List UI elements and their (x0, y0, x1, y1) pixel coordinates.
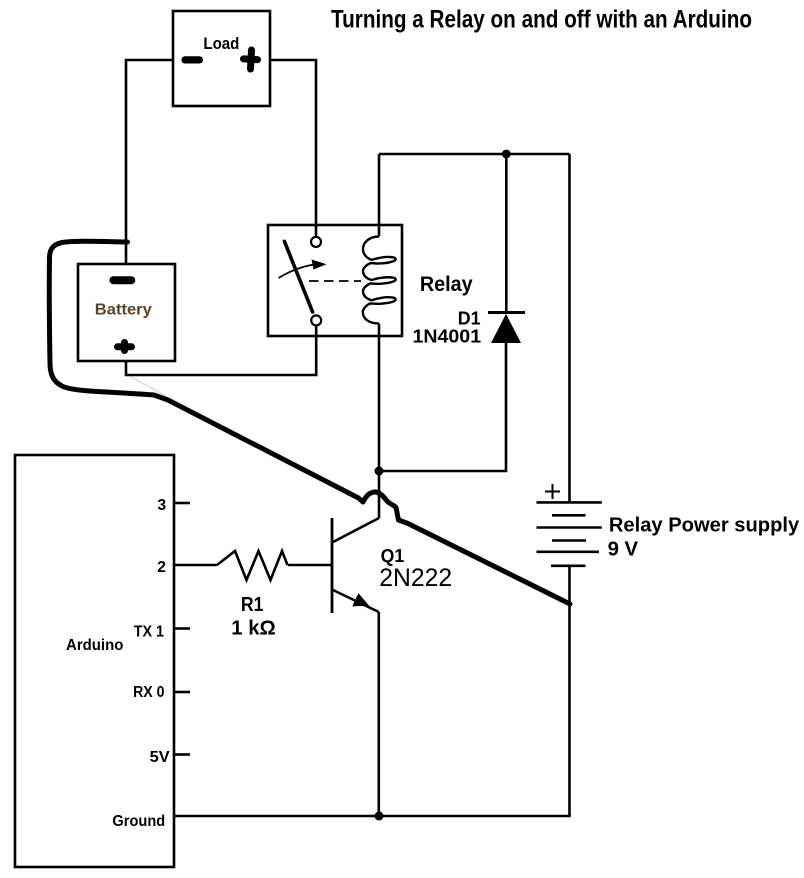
pin Ground label (112, 813, 165, 830)
svg-text:Load: Load (203, 34, 239, 53)
load minus sign (185, 56, 200, 63)
svg-text:Relay Power supply: Relay Power supply (609, 514, 800, 537)
transistor label Q1 (381, 546, 405, 566)
resistor value 1 kOhm (231, 618, 275, 640)
thick hand-drawn wire battery minus loop to relay power supply minus (49, 241, 570, 604)
title (331, 6, 752, 34)
svg-text:TX 1: TX 1 (134, 624, 165, 641)
diode label D1 (458, 308, 481, 329)
battery label (95, 302, 152, 319)
ground rail wire (174, 815, 571, 818)
transistor value 2N222 (379, 564, 452, 592)
battery box (78, 264, 175, 361)
wire emitter down to ground rail (377, 612, 380, 816)
wire load right to relay switch top (270, 60, 316, 236)
svg-text:1N4001: 1N4001 (413, 326, 482, 347)
wire battery plus to relay switch bottom (126, 326, 316, 375)
transistor Q1 (332, 518, 379, 613)
svg-text:Turning a Relay on and off wit: Turning a Relay on and off with an Ardui… (331, 6, 752, 34)
wire power supply minus to ground rail (568, 566, 571, 816)
pin RX 0 stub (174, 691, 190, 694)
svg-text:Battery: Battery (95, 302, 152, 319)
battery minus sign (113, 276, 131, 284)
wire diode cathode (505, 154, 508, 311)
svg-text:5V: 5V (150, 749, 171, 766)
pin 5V stub (174, 753, 190, 756)
arduino label (66, 637, 124, 654)
node collector junction (375, 467, 384, 476)
relay switch actuation arrow (279, 260, 327, 279)
relay box (268, 225, 402, 336)
svg-text:2N222: 2N222 (379, 564, 452, 592)
svg-text:R1: R1 (241, 594, 264, 616)
wire pin 2 to resistor (174, 564, 217, 567)
wire resistor to base (288, 564, 332, 567)
svg-text:9 V: 9 V (608, 538, 639, 561)
diode D1 (488, 313, 525, 344)
pin RX 0 label (133, 684, 164, 701)
pin TX 1 label (134, 624, 165, 641)
wire relay coil top to top rail (378, 154, 381, 237)
wire top rail to power supply plus (568, 154, 571, 502)
arduino box (15, 455, 174, 867)
resistor label R1 (241, 594, 264, 616)
pin 5V label (150, 749, 171, 766)
load label (203, 34, 239, 53)
pin 3 label (158, 497, 167, 514)
relay switch blade (284, 241, 312, 312)
resistor R1 (217, 551, 288, 580)
relay switch top terminal (311, 237, 321, 247)
wire diode anode down (379, 343, 506, 471)
wire load left to battery (126, 60, 173, 264)
relay label (420, 273, 473, 296)
svg-text:1 kΩ: 1 kΩ (231, 618, 275, 640)
svg-text:RX 0: RX 0 (133, 684, 164, 701)
battery B1 relay power supply (537, 502, 602, 565)
relay dashed coupling line (309, 280, 361, 282)
battery plus sign (118, 343, 132, 351)
load plus sign (243, 50, 258, 70)
node top rail / diode junction (502, 150, 511, 159)
node ground junction (375, 812, 384, 821)
relay coil (363, 237, 396, 324)
pin 3 stub (174, 502, 190, 505)
relay switch bottom terminal (311, 315, 321, 325)
svg-text:2: 2 (157, 559, 166, 576)
svg-text:Ground: Ground (112, 813, 165, 830)
top rail wire (379, 153, 570, 156)
white-out streak (131, 377, 166, 396)
power supply voltage 9 V (608, 538, 639, 561)
power supply label (609, 514, 800, 537)
svg-text:3: 3 (158, 497, 167, 514)
wire coil bottom to collector (378, 324, 381, 519)
svg-text:Relay: Relay (420, 273, 473, 296)
load box (173, 11, 270, 106)
pin 2 label (157, 559, 166, 576)
svg-text:Arduino: Arduino (66, 637, 124, 654)
diode value 1N4001 (413, 326, 482, 347)
power supply plus sign (545, 484, 560, 499)
svg-text:Q1: Q1 (381, 546, 405, 566)
pin TX 1 stub (174, 627, 190, 630)
